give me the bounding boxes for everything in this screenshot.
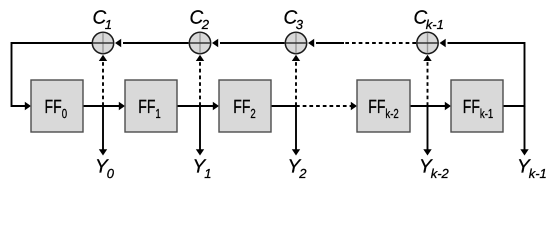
svg-text:Yk-1: Yk-1 — [517, 156, 547, 181]
dashed tap up from FF1 output into C2 — [199, 62, 201, 106]
flip-flop FF2 box — [219, 80, 271, 132]
svg-text:Y0: Y0 — [95, 157, 115, 182]
wire FF2 to junction (solid) — [271, 105, 296, 107]
flip-flop FF1 box — [125, 80, 177, 132]
dashed tap up from FF2 output into C3 — [295, 62, 297, 106]
wire FFk-1 output right and up to Ck-1 level — [448, 43, 525, 106]
flip-flop FFk-1 box — [451, 80, 503, 132]
wire FF1 to FF2 — [177, 105, 214, 107]
svg-text:C3: C3 — [284, 8, 304, 33]
wire C2 output to C1 — [123, 42, 189, 44]
dashed tap up from FF0 output into C1 — [102, 62, 104, 106]
dashed tap up from FFk-2 output into Ck-1 — [427, 62, 429, 106]
wire junction to FFk-2 (dashed continuation) — [296, 105, 352, 107]
svg-text:Yk-2: Yk-2 — [419, 156, 450, 181]
arrowhead into C1 right — [115, 39, 121, 47]
flip-flop FF0 box — [31, 80, 83, 132]
arrowhead into FF2 — [213, 102, 219, 110]
output Y2 arrow down — [295, 106, 297, 150]
output Yk-2 arrow down — [427, 106, 429, 150]
XOR gate C3 — [285, 32, 306, 53]
wire Ck-1 output to C3 (dashed then solid) — [344, 42, 416, 44]
flip-flop FFk-2 box — [357, 80, 410, 132]
arrowhead into FF0 — [25, 102, 31, 110]
output Yk-1 arrow down — [524, 106, 526, 150]
arrowhead into FF1 — [119, 102, 125, 110]
svg-text:Y2: Y2 — [288, 157, 308, 182]
svg-text:C2: C2 — [190, 8, 210, 33]
wire feedback from C1 left, down left side, into FF0 — [12, 43, 93, 106]
arrowhead into Ck-1 right — [440, 39, 446, 47]
arrowhead into FFk-1 — [445, 102, 451, 110]
svg-text:C1: C1 — [93, 8, 112, 33]
XOR gate Ck-1 — [417, 32, 438, 53]
XOR gate C2 — [189, 32, 210, 53]
wire FF0 to FF1 — [83, 105, 120, 107]
XOR gate C1 — [92, 32, 113, 53]
output Y1 arrow down — [199, 106, 201, 150]
arrowhead into C3 right — [308, 39, 314, 47]
svg-text:Ck-1: Ck-1 — [414, 8, 444, 33]
wire C3 output to C2 — [220, 42, 285, 44]
arrowhead into FFk-2 — [351, 102, 357, 110]
svg-text:Y1: Y1 — [193, 157, 212, 182]
output Y0 arrow down — [102, 106, 104, 150]
arrowhead into C2 right — [212, 39, 218, 47]
wire FFk-2 to FFk-1 — [410, 105, 446, 107]
